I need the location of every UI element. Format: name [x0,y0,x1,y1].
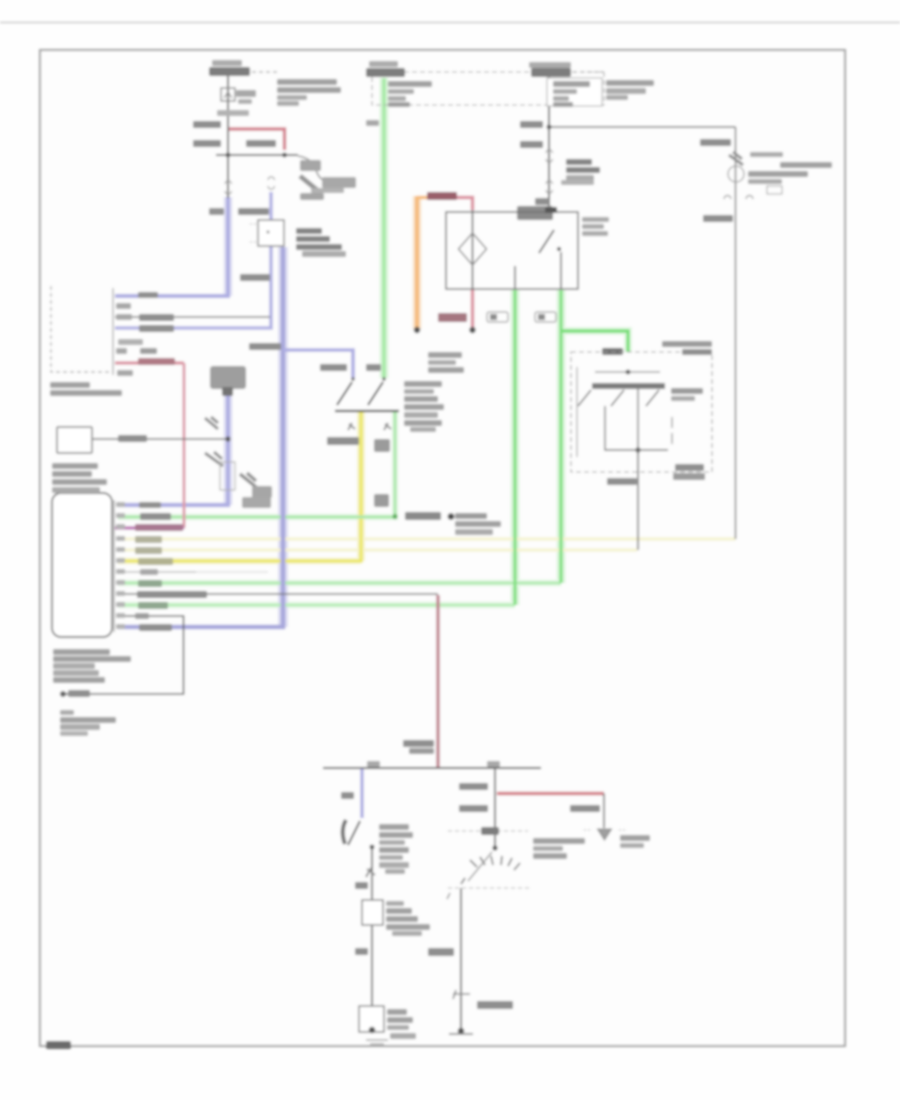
label M conn clutch [355,882,368,889]
component cluster right of blue B1 [240,473,256,487]
wire black fuse column F1 [227,76,229,198]
label W/B right loop [700,139,731,146]
label ECU pin y583 [138,580,162,587]
wire black ground pin y616 [62,616,184,694]
label hold relay right text [582,217,609,222]
wire green G2 relay box to ECU [513,290,516,605]
bottom left component box [359,1006,384,1032]
label ECU pin y517 [140,513,171,520]
wire black horiz y155 [216,154,298,156]
wire black bus y768 [323,767,541,769]
label pin y303 [116,303,131,309]
label clutch switch text [379,824,409,830]
transmission range switch dashed bottom [448,887,530,889]
wire black transmission drop [494,768,496,848]
wire halo underlays [380,78,389,378]
ASCD main switch dashed box [571,352,712,472]
wire black starter column [460,888,462,1031]
label G below box [366,120,379,126]
wire blue B1 upper [115,197,228,296]
label B ground [68,690,90,697]
label W/L at blue branch [320,364,347,371]
label ECU pin y594 long [137,591,207,598]
transmission range switch dashed top [448,830,528,832]
wire red ECU pin row to magenta drop [115,361,184,364]
label W/L on B2 y211 [238,208,269,215]
wire green G1 fuse to stop lamp switch [382,78,385,378]
label W/L near B3 y346 [249,343,281,350]
label ECU pin y616 [135,613,149,619]
alternator component at right loop [728,166,744,182]
label B/R clutch column [355,948,368,955]
label ECU pin y528 [135,524,183,531]
wire magenta ECU pin y528 [115,526,184,529]
inline connector marks on greens [487,312,508,322]
label W/L left y143 [193,140,221,147]
label W/L on B2 y277 [240,274,270,281]
junction dot y127 [547,125,552,130]
label pin y325 [139,325,174,332]
wire orange [417,196,440,200]
label W/L mid y143 [246,140,276,147]
label glow text [566,159,592,165]
label F3 name [529,62,571,68]
label W/R below main switch [607,478,637,485]
scan top edge line [0,22,900,24]
label hold relay text [296,228,322,234]
wire pale green ECU pin y583 to green G3 [118,581,561,584]
wire blue stub clutch switch [360,768,363,818]
ground triangle x605 [598,829,612,840]
label STARTER [477,1001,513,1009]
wire pale green ECU pin y605 to green G2 [118,603,515,606]
label F2 15A [369,61,398,67]
label pin y292 [138,292,158,298]
connector marks on F1 column [225,181,231,194]
label note text block [60,710,74,715]
diamond coil [459,233,487,265]
connector blobs on green drop [374,439,390,452]
label RESUME bottom [675,464,704,471]
label ECU pin y539 [135,536,162,543]
label alternator right text [750,152,783,157]
label W/R near maroon bottom [403,740,434,747]
label W WR right of red [570,805,600,812]
stop lamp switch bottom bus [335,410,399,412]
connector ticks starter column [453,990,470,999]
connector marks on blue B2 [268,177,274,189]
ECU box [52,493,112,637]
page number label [46,1041,71,1049]
wire gray shield row y572 [118,571,196,573]
wire green G3 relay box to ECU [559,290,562,583]
bus tick labels [367,761,380,767]
label W/L on B1 y211 [209,208,224,215]
label LT/B right loop [703,215,733,222]
label RED TOP below box [438,313,467,322]
label W/R below connector [535,198,549,205]
connector ticks clutch column [366,868,375,877]
wire black ECU y594 row [118,593,438,595]
fuse F2 [366,68,405,77]
wire black right loop x737 [735,127,737,539]
wire pale green ECU pin y517 [118,412,395,517]
label above hold relay right [561,180,594,185]
wire black x605 to ground [603,794,605,829]
wire maroon ECU y594 drop to bus [436,595,439,768]
label clutch relay text [386,901,404,906]
label ECU bottom text block [53,649,110,655]
label PU clutch stub [341,792,354,799]
label circuit breaker text right of F1 [277,79,337,85]
main switch inner wiring [595,371,660,373]
dashed bracket ignition connector [51,286,112,372]
label pin y360 red [138,358,175,365]
label on phi relay [545,207,557,213]
label ECU pin y505 [139,502,161,508]
speedometer box [57,427,92,453]
label G at green switch [366,364,381,371]
label 10A above F1 [212,60,242,66]
wire black connector row y317 [115,316,270,318]
ASCD hold relay small box [258,220,284,246]
label right of dot y517 [455,513,487,519]
label ECU pin y627 [139,624,172,631]
rotary switch fan [492,845,497,850]
wire red below hold relay box [471,289,474,329]
wire red transmission branch [497,792,604,796]
label F3 box inner text [553,81,590,87]
label pin y372 [117,370,133,376]
label text block left mid [52,463,98,469]
label LG left of yellow [327,437,359,445]
clutch interlock relay box [362,900,383,925]
label 2B connector [217,110,249,116]
starter ground [458,1028,464,1034]
wire yellow Y3 ECU pin to stop lamp switch [118,412,361,561]
label pin y349 [116,348,127,354]
connector box on blue B1 [220,462,235,490]
label ignition switch text block [50,382,90,388]
wire blue B3 hold relay to ECU pin y627 [118,247,283,627]
stop lamp switch blades [337,382,352,405]
label main switch title [662,341,712,347]
wire black top loop y127 [549,126,736,128]
hold relay big box [446,212,578,289]
label right of F3 box [606,80,654,86]
label ECU pin y550 [135,547,162,554]
wire black clutch column [371,846,373,1008]
label W WR trans y787 [459,783,488,790]
ground symbol left [60,691,66,697]
clutch switch symbol [348,821,360,845]
ignition dashed top box [372,72,604,105]
wire blue branch to stop lamp switch [283,350,353,378]
fusible link component cluster [298,156,328,182]
connector ticks below switch [348,423,355,430]
label W/L left y124 [193,121,221,128]
label bottom box text [387,1009,407,1015]
label on green y517 [405,512,441,520]
wire red fuse column jog [229,129,285,150]
circuit breaker symbol [221,88,235,101]
wire green branch to main switch [561,331,628,352]
label W/B y124 [520,121,543,128]
wire yellow Y1 ECU pin to right loop [118,537,736,540]
label ECU pin y561 [138,558,173,565]
wire red hold relay feed [440,198,473,211]
label on red feed wire [427,192,457,200]
ASCD relay dark box on y212 [517,206,553,220]
connector spine x113 [112,288,114,375]
label ground right text [620,835,650,841]
label Y/G speedometer [118,435,147,442]
label ECU pin y605 [138,602,168,609]
label main switch blades [671,388,703,394]
junction dot green branch [602,348,623,355]
label W WR trans y809 [459,805,488,812]
label stop lamp switch right text [404,381,442,387]
wire black main switch drop [637,450,639,550]
label pin y340 [118,339,143,345]
wire yellow Y2 ECU pin to main switch [118,548,637,551]
fuse F1 10A top-left [209,67,250,76]
inner white box right of F3 [547,78,602,106]
wire red vertical x184 [183,363,186,528]
terminal dots below hold relay [414,327,420,333]
wire black fuse column F2 [548,76,550,207]
label W/B y144 [520,141,543,148]
label ECU pin y572 [140,569,158,575]
wire blue B1 lower SMJ to ECU [118,394,228,505]
junction dots y155 [226,153,231,158]
wire black hold relay box line [472,210,474,290]
wire blue B2 [115,192,271,328]
connector arrow marks near blue B1 lower [205,417,218,429]
connector marks on F2 column [546,150,552,162]
junction dots green y517 [392,514,397,519]
label ECU pin numbers column [116,502,125,629]
label stop lamp switch upper text [428,352,462,358]
label pin y314 [116,314,132,320]
label trans switch text [533,838,585,844]
wire black speedometer y439 [92,438,228,440]
label ignition box inner text [388,81,432,87]
relay switch blade [539,230,554,253]
label W/B starter column [428,948,454,956]
junction dot speedometer line [225,436,230,441]
ECU connector spine [113,500,115,632]
SMJ dark box [210,366,246,389]
fuse F3 [531,68,571,77]
